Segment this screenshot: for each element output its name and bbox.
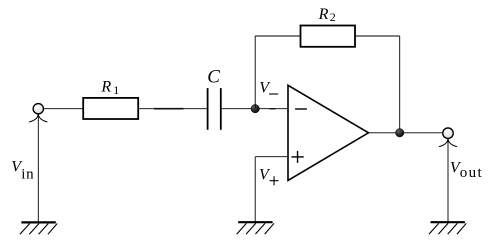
wire: capacitor to op-amp inverting input (222, 108, 288, 110)
wire: overlapping darker segment R1-C (154, 108, 184, 110)
capacitor C (208, 88, 221, 130)
svg-text:out: out (460, 165, 483, 181)
op-amp plus sign (non-inverting input) (291, 151, 303, 163)
wire: non-inverting input down to ground (254, 157, 256, 222)
wire: top rail right of R2 (355, 35, 400, 37)
wire: op-amp output to output terminal (369, 132, 443, 134)
svg-text:1: 1 (113, 83, 119, 97)
label V_in (11, 159, 34, 183)
wire: input terminal to R1 (44, 108, 84, 110)
arrow barbs at input terminal (29, 114, 47, 122)
op-amp U1 (288, 85, 369, 180)
svg-text:R: R (318, 6, 329, 23)
node B: output junction dot (396, 129, 404, 137)
label V+ (259, 166, 279, 185)
svg-text:C: C (207, 67, 220, 88)
input terminal circle (V_in) (33, 104, 43, 114)
wire: overlapping darker segment node-opamp (270, 108, 276, 110)
output terminal circle (V_out) (443, 128, 454, 139)
ground (middle, non-inverting input) (237, 222, 274, 234)
resistor R1 (83, 98, 138, 119)
svg-text:R: R (100, 78, 111, 95)
svg-text:in: in (21, 167, 34, 183)
wire: input terminal down to ground (37, 114, 39, 221)
node A: inverting-input junction dot (251, 105, 259, 113)
wire: top rail left of R2 (255, 35, 300, 37)
wire: feedback vertical right (R2 rail down to output node) (399, 36, 401, 133)
wire: feedback vertical left (node A up to R2 rail) (254, 36, 256, 109)
svg-text:2: 2 (330, 10, 336, 24)
label V_out (450, 159, 483, 181)
label V- (259, 80, 278, 97)
resistor R2 (301, 26, 356, 47)
arrow barbs at output terminal (439, 139, 457, 147)
ground (left) (20, 222, 57, 234)
ground (right) (429, 222, 466, 234)
wire: output terminal down to ground (447, 139, 449, 221)
wire: non-inverting input horizontal (255, 156, 288, 158)
op-amp minus sign (inverting input) (295, 108, 307, 110)
wire: R1 to capacitor C (138, 108, 207, 110)
